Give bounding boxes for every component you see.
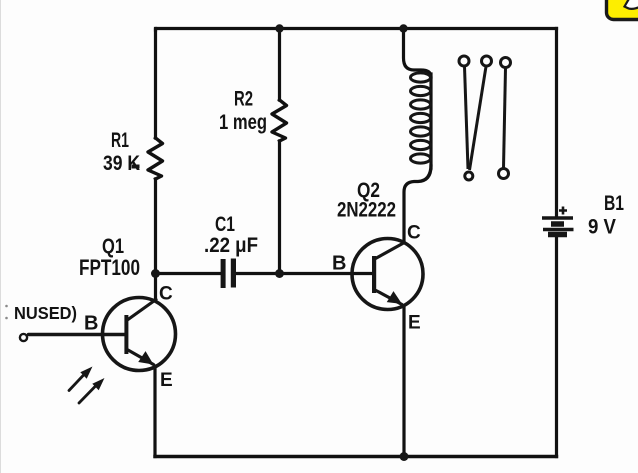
relay contact bottom terminal circle [499,169,509,179]
svg-text:E: E [160,370,173,391]
light arrow 1 into Q1 [69,368,91,391]
battery B1 [542,207,574,235]
wire coil bottom to Q2 collector [404,166,431,242]
svg-text:B1: B1 [604,192,624,215]
svg-text:C: C [407,223,421,244]
relay contact arm 2 [470,67,487,171]
svg-text:B: B [84,313,98,335]
relay contact terminal circle 1 [459,56,469,66]
faint scan edge at left [0,0,2,473]
transistor Q2 [352,239,423,310]
wire node A to C1 left plate [156,272,221,275]
resistor R1 [148,138,163,179]
svg-text:C: C [159,284,173,305]
relay contact terminal circle 2 [482,56,492,66]
relay coil K1 [429,74,432,168]
svg-text:NUSED): NUSED) [14,303,77,323]
svg-text:B: B [332,253,346,275]
resistor R2 [272,100,287,141]
node junction dot at bottom rail [400,452,409,461]
relay contact terminal circle 3 [501,58,511,68]
wire right rail upper (top rail to battery) [555,29,558,216]
relay contact arm 3 [504,68,506,168]
svg-text:1 meg: 1 meg [219,111,267,134]
svg-text:39 K: 39 K [103,152,140,175]
svg-text:.22 μF: .22 μF [204,234,258,257]
relay contact arm pivot hook [465,172,473,180]
relay contact arm 1 [465,67,469,170]
wire bottom rail [155,455,557,458]
svg-text:FPT100: FPT100 [79,255,140,280]
wire R2 branch upper [278,29,281,101]
cropped glyph remnants at left edge [5,305,8,308]
svg-text:R2: R2 [234,88,253,111]
node junction dot at R2 bottom [275,269,284,278]
svg-text:2N2222: 2N2222 [337,199,396,222]
light arrow 2 into Q1 [79,380,103,404]
wire C1 right plate to Q2 base [236,272,372,275]
wire Q1 base lead [29,333,125,336]
Q1 base open terminal [20,334,27,341]
svg-text:C1: C1 [215,213,235,236]
wire left rail upper (top rail to R1) [154,29,157,139]
relay coil K1 loops [411,73,431,163]
wire right rail lower (battery to bottom rail) [555,237,558,457]
node junction dot at R2 top [275,24,283,32]
svg-text:E: E [408,313,421,334]
yellow corner badge [607,0,638,20]
wire Q2 emitter to bottom rail [402,306,405,457]
wire Q1 emitter to bottom rail [153,366,156,457]
svg-text:9 V: 9 V [588,216,616,239]
node junction dot at coil top [399,24,407,32]
svg-text:R1: R1 [111,129,129,152]
capacitor C1 [221,259,236,289]
wire top rail [156,29,557,31]
wire left rail (node A to Q1 collector) [154,274,157,301]
wire left rail (R1 to node A) [154,179,157,274]
wire coil branch from top rail [404,29,432,78]
phototransistor Q1 [29,298,176,371]
node A junction dot (left rail / C1 row) [151,269,160,278]
wire R2 branch lower (to node A row) [278,141,281,274]
